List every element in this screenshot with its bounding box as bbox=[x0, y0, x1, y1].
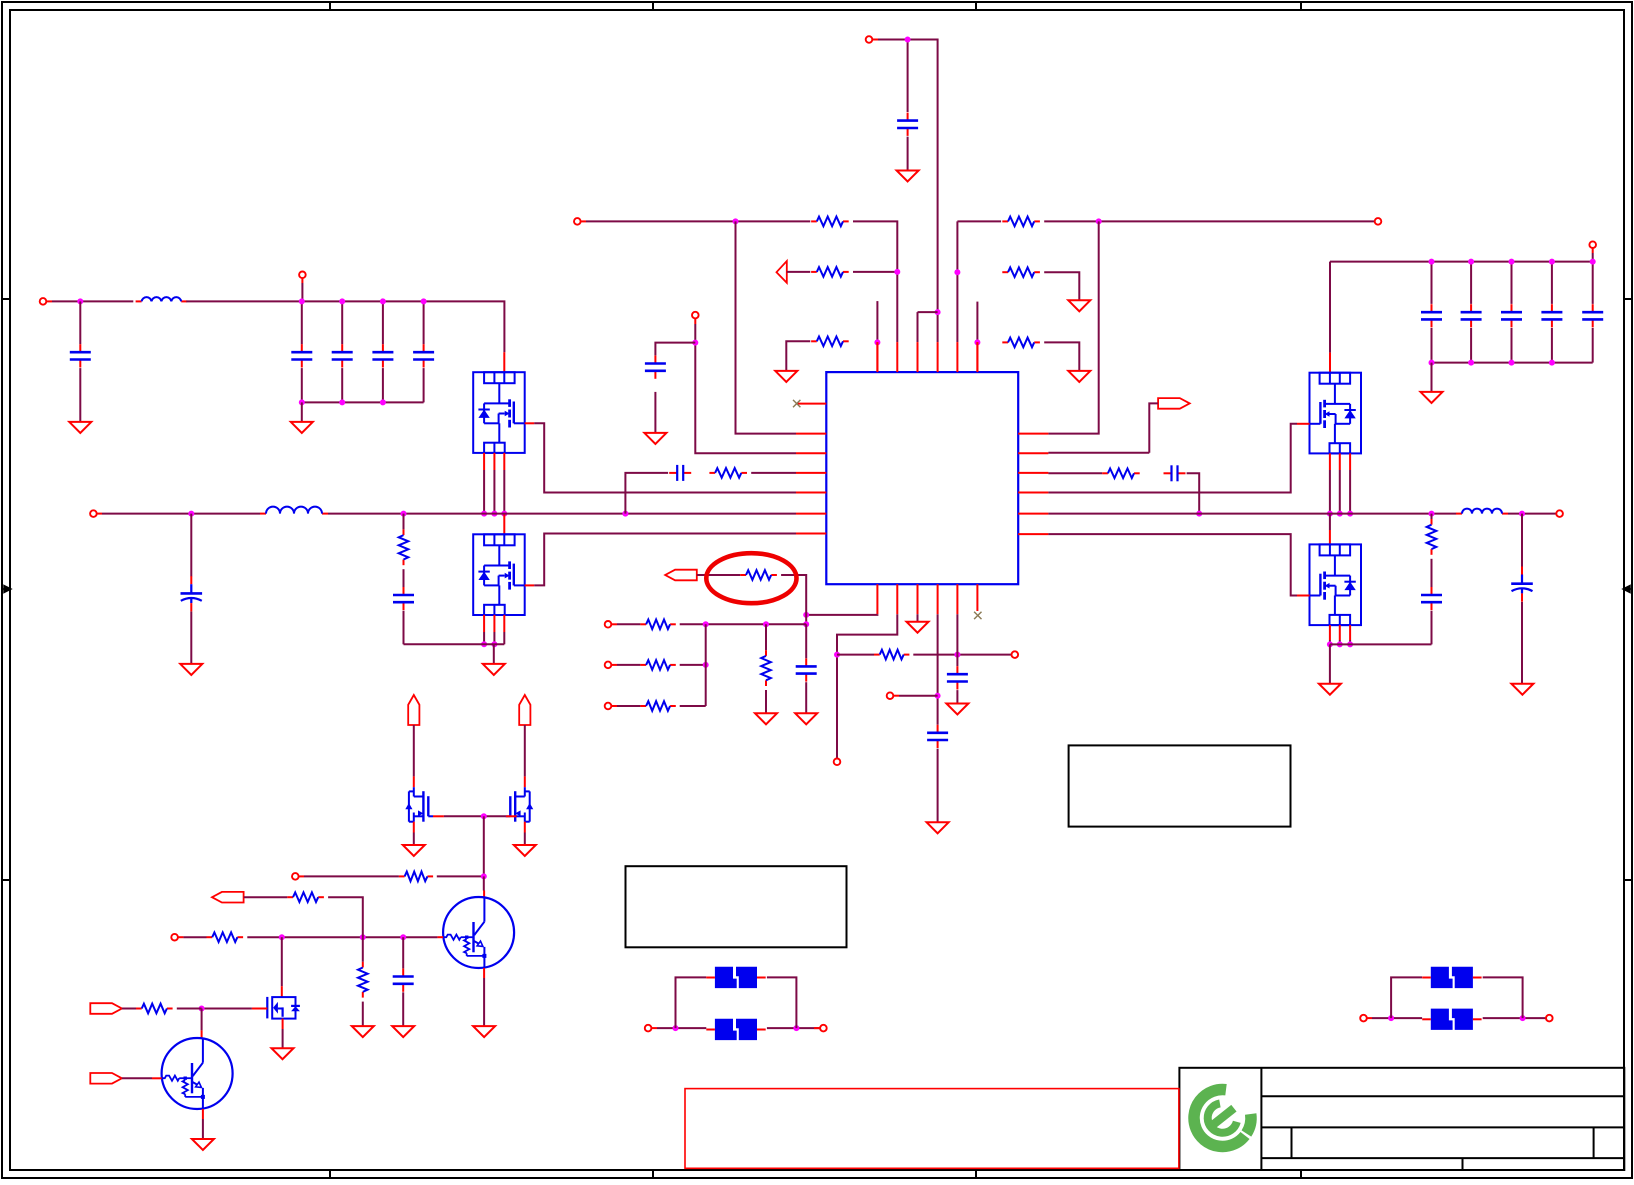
ground bbox=[775, 371, 797, 382]
ground bbox=[514, 845, 536, 856]
wire to R4 bbox=[957, 220, 1001, 222]
resistor R12 bbox=[640, 660, 675, 670]
capacitor C12 bbox=[796, 658, 817, 681]
resistor R10 bbox=[740, 570, 777, 580]
ground bbox=[483, 664, 505, 675]
no-connect x bbox=[793, 400, 800, 407]
U1 top pins bbox=[877, 342, 977, 372]
wire P17 down bbox=[1592, 253, 1594, 262]
wire R16 to C20 bbox=[1431, 559, 1433, 587]
inductor L3 bbox=[1456, 509, 1508, 514]
resistor R1 bbox=[811, 217, 849, 227]
wire cap column lower bbox=[1511, 328, 1513, 363]
junction bbox=[1327, 511, 1333, 517]
ground bbox=[192, 1139, 214, 1150]
wire to C12 bbox=[805, 624, 807, 658]
wire cap column bbox=[423, 301, 425, 344]
ground bbox=[352, 1026, 374, 1037]
Q1 source pins bbox=[484, 453, 504, 470]
wire C12 to ground bbox=[805, 682, 807, 713]
wire P25 to Q9 base bbox=[122, 1077, 152, 1079]
wire pin to port P14 bbox=[837, 614, 897, 758]
wire node to Q7 collector bbox=[483, 876, 485, 890]
wire R21 to node bbox=[177, 1008, 202, 1010]
wire vertical bus bbox=[705, 624, 707, 706]
capacitor C20 bbox=[1421, 587, 1442, 610]
resistor R3 bbox=[811, 337, 849, 347]
wire Q4 source to PGND bbox=[1339, 640, 1341, 644]
wire IC to P9 corner bbox=[1048, 452, 1149, 454]
U1 right pins bbox=[1018, 434, 1048, 534]
junction bbox=[703, 621, 709, 627]
wire C1 to ground bbox=[907, 137, 909, 171]
junction bbox=[299, 298, 305, 304]
wire to C9 bbox=[655, 343, 695, 356]
wire PGND bus right bbox=[1330, 643, 1432, 645]
port arrow P9 bbox=[1158, 398, 1190, 409]
ground bbox=[907, 622, 929, 633]
port arrow P3 bbox=[777, 261, 787, 283]
port P11 bbox=[605, 621, 612, 628]
port P22 bbox=[171, 934, 178, 941]
wire Q3 source to SW bbox=[1329, 470, 1331, 514]
junction bbox=[834, 652, 840, 658]
wire C21 to ground bbox=[1521, 602, 1523, 683]
resistor R9 bbox=[1102, 469, 1140, 479]
wire down to pin3 bbox=[917, 312, 919, 342]
wire to Q3 drain bbox=[1329, 262, 1331, 353]
wire C22 to ground bbox=[402, 992, 404, 1025]
junction bbox=[803, 612, 809, 618]
wire to R16 bbox=[1431, 514, 1433, 519]
capacitor C9 bbox=[645, 356, 666, 379]
junction bbox=[935, 693, 941, 699]
port P12 bbox=[605, 662, 612, 669]
fuse F3 bbox=[1422, 1009, 1481, 1030]
no-connect x bbox=[974, 612, 981, 619]
capacitor C4 bbox=[332, 344, 353, 367]
wire cap column bbox=[382, 301, 384, 344]
wire F2 down bbox=[767, 977, 797, 1028]
wire to ground bbox=[1431, 363, 1433, 392]
wire cap column bbox=[1592, 262, 1594, 304]
wire cap column bbox=[1431, 262, 1433, 304]
wire Q5 to ground bbox=[413, 833, 415, 845]
wire cap bank top bus bbox=[1330, 261, 1593, 263]
wire F1 to P27 bbox=[767, 1027, 820, 1029]
highlight ellipse bbox=[706, 553, 796, 603]
junction bbox=[692, 340, 698, 346]
junction bbox=[793, 1025, 799, 1031]
wire IC to Q3 gate bbox=[1048, 424, 1297, 493]
wire R11 bus bbox=[680, 623, 807, 625]
junction bbox=[1196, 511, 1202, 517]
junction bbox=[481, 641, 487, 647]
wire cap column bbox=[341, 301, 343, 344]
wire R10 down bbox=[781, 575, 806, 624]
capacitor C6 bbox=[413, 344, 434, 367]
wire node to Q9 bbox=[201, 1009, 203, 1031]
junction bbox=[1509, 360, 1515, 366]
port P27 bbox=[820, 1025, 827, 1032]
port P1 bbox=[866, 36, 873, 43]
port P28 bbox=[1360, 1015, 1367, 1022]
junction bbox=[491, 511, 497, 517]
wire to C2 bbox=[79, 301, 81, 344]
junction bbox=[400, 934, 406, 940]
wire branch to pin3 bbox=[918, 311, 938, 313]
ground bbox=[473, 1026, 495, 1037]
wire R20 to ground bbox=[362, 1002, 364, 1026]
port arrow P25 bbox=[90, 1073, 122, 1084]
wire Q2 gate to IC bbox=[534, 534, 796, 586]
ground bbox=[403, 845, 425, 856]
junction bbox=[481, 873, 487, 879]
wire to Q8 drain bbox=[281, 937, 283, 986]
junction bbox=[894, 269, 900, 275]
junction bbox=[188, 511, 194, 517]
resistor R2 bbox=[811, 267, 849, 277]
junction bbox=[1429, 360, 1435, 366]
wire cap column lower bbox=[301, 368, 303, 402]
junction bbox=[481, 511, 487, 517]
capacitor C11 series bbox=[1164, 465, 1186, 481]
port arrow P20 bbox=[519, 695, 530, 725]
wire to C21 bbox=[1521, 514, 1523, 567]
junction bbox=[874, 339, 880, 345]
resistor R6 bbox=[1002, 338, 1040, 348]
resistor R21 bbox=[136, 1004, 173, 1014]
wire gate node down bbox=[483, 816, 485, 876]
wire PGND bus left bbox=[404, 643, 505, 645]
resistor R11 bbox=[640, 620, 675, 630]
junction bbox=[401, 511, 407, 517]
wire R1 to IC pin bbox=[853, 221, 897, 342]
wire to IC left pin bbox=[736, 221, 797, 433]
junction bbox=[1429, 259, 1435, 265]
wire Q1 source to SW bbox=[503, 470, 505, 514]
wire F3 to P29 bbox=[1483, 1017, 1546, 1019]
junction bbox=[1519, 511, 1525, 517]
ground bbox=[795, 713, 817, 724]
junction bbox=[491, 641, 497, 647]
wire to ground bbox=[301, 402, 303, 421]
wire P26 to F1 bbox=[657, 1027, 706, 1029]
port P6 bbox=[299, 272, 306, 279]
wire P23 to R19 bbox=[244, 896, 287, 898]
wire cap column lower bbox=[1592, 328, 1594, 363]
wire Q1 source to SW bbox=[483, 470, 485, 514]
wire R3 to ground bbox=[786, 341, 810, 370]
Q3 source pins bbox=[1330, 453, 1350, 470]
wire cap column lower bbox=[382, 368, 384, 402]
annotation box 2 bbox=[1069, 745, 1291, 826]
wire cap column bbox=[1551, 262, 1553, 304]
capacitor C3 bbox=[291, 344, 312, 367]
wire cap column lower bbox=[1551, 328, 1553, 363]
capacitor C18 bbox=[1541, 304, 1562, 327]
fuse F4 bbox=[1422, 967, 1481, 988]
inductor L2 bbox=[260, 507, 328, 514]
wire cap column lower bbox=[423, 368, 425, 402]
wire P28 to F3 bbox=[1372, 1017, 1422, 1019]
junction bbox=[77, 298, 83, 304]
ground bbox=[291, 422, 313, 433]
port arrow P23 bbox=[212, 892, 244, 903]
junction bbox=[380, 298, 386, 304]
ground bbox=[392, 1026, 414, 1037]
wire P24 to R21 bbox=[122, 1008, 136, 1010]
transistor Q9 digital bbox=[162, 1038, 233, 1109]
wire cap column bbox=[1470, 262, 1472, 304]
capacitor C17 bbox=[1501, 304, 1522, 327]
fuse F2 bbox=[706, 967, 765, 988]
junction bbox=[1347, 641, 1353, 647]
capacitor C7 polarized bbox=[181, 576, 203, 611]
ground bbox=[1421, 392, 1443, 403]
junction bbox=[481, 813, 487, 819]
junction bbox=[935, 309, 941, 315]
capacitor C2 bbox=[70, 344, 91, 367]
wire R13 to bus bbox=[680, 705, 706, 707]
junction bbox=[299, 399, 305, 405]
junction bbox=[421, 298, 427, 304]
capacitor C1 bbox=[897, 113, 918, 136]
ground bbox=[180, 664, 202, 675]
wire cap column lower bbox=[1470, 328, 1472, 363]
capacitor C19 bbox=[1582, 304, 1603, 327]
port P2 bbox=[574, 218, 581, 225]
wire C2 to ground bbox=[79, 368, 81, 421]
red annotation box bbox=[685, 1089, 1179, 1169]
wire IC to Q4 gate bbox=[1048, 534, 1297, 595]
capacitor C13 bbox=[927, 725, 948, 748]
port P21 bbox=[292, 873, 299, 880]
ground bbox=[1319, 684, 1341, 695]
wire R7 to C8 bbox=[403, 569, 405, 587]
resistor R7 bbox=[399, 529, 409, 565]
ground bbox=[1511, 684, 1533, 695]
port P29 bbox=[1546, 1015, 1553, 1022]
wire VIN top vertical bbox=[878, 40, 938, 343]
junction bbox=[1337, 641, 1343, 647]
port P26 bbox=[645, 1025, 652, 1032]
wire Q1 gate to IC bbox=[534, 423, 796, 492]
resistor R15 bbox=[874, 650, 909, 660]
wire to Q4 drain bbox=[1329, 514, 1331, 530]
wire P11 to R11 bbox=[617, 623, 640, 625]
wire R12 to bus bbox=[680, 664, 706, 666]
wire Q9 emitter to ground bbox=[202, 1119, 204, 1139]
junction bbox=[673, 1025, 679, 1031]
wire up to P9 bbox=[1149, 403, 1158, 452]
wire R6 to ground bbox=[1044, 342, 1079, 370]
port P13 bbox=[605, 703, 612, 710]
wire L3 to port P18 bbox=[1508, 513, 1556, 515]
ground bbox=[946, 704, 968, 715]
wire pin to node bbox=[806, 613, 877, 616]
U1 bottom pin 6 bbox=[976, 584, 978, 611]
capacitor C10 series bbox=[669, 465, 691, 481]
resistor R14 bbox=[761, 650, 771, 686]
wire to IC right pin bbox=[1048, 221, 1098, 433]
port arrow P24 bbox=[90, 1003, 122, 1014]
wire gate bus Q8 bbox=[202, 1008, 252, 1010]
ground bbox=[897, 171, 919, 182]
wire F4 down bbox=[1483, 977, 1523, 1018]
wire to C_top bbox=[907, 40, 909, 113]
junction bbox=[279, 934, 285, 940]
wire P5 to L1 bbox=[52, 300, 133, 302]
wire Q1 source to SW bbox=[493, 470, 495, 514]
wire up to F4 bbox=[1391, 977, 1422, 1018]
port P16 bbox=[887, 692, 894, 699]
annotation box 1 bbox=[626, 866, 847, 947]
wire cap bottom bus bbox=[302, 401, 424, 403]
port P8 bbox=[692, 312, 699, 319]
wire R14 to ground bbox=[765, 690, 767, 713]
wire to R15 bbox=[837, 654, 874, 656]
wire Q4 source to PGND bbox=[1349, 640, 1351, 644]
resistor R4 bbox=[1002, 217, 1040, 227]
wire pin4 down bbox=[937, 614, 939, 725]
port P17 bbox=[1589, 241, 1596, 248]
junction bbox=[1337, 511, 1343, 517]
wire R5 to ground bbox=[1044, 272, 1079, 300]
junction bbox=[1468, 259, 1474, 265]
wire pin3 to ground bbox=[917, 614, 919, 621]
junction bbox=[1429, 511, 1435, 517]
wire R19 to base bus bbox=[328, 897, 363, 937]
wire P12 to R12 bbox=[617, 664, 640, 666]
resistor R5 bbox=[1002, 267, 1040, 277]
mosfet Q2 bbox=[473, 534, 525, 615]
junction bbox=[703, 662, 709, 668]
wire to C7 bbox=[190, 514, 192, 577]
IC U1 bbox=[826, 372, 1018, 584]
junction bbox=[1468, 360, 1474, 366]
wire R17 to node bbox=[437, 875, 484, 877]
mosfet Q1 bbox=[473, 372, 525, 453]
junction bbox=[1347, 511, 1353, 517]
inductor L1 bbox=[136, 297, 188, 301]
border centre arrows bbox=[2, 586, 1632, 593]
wire Q8 to ground bbox=[282, 1029, 284, 1048]
junction bbox=[1509, 259, 1515, 265]
ground bbox=[927, 822, 949, 833]
wire P16 to node bbox=[899, 695, 938, 697]
mosfet Q8 bbox=[267, 997, 300, 1019]
resistor R16 bbox=[1427, 519, 1437, 555]
wire C10 to SW bbox=[625, 473, 668, 514]
port P15 bbox=[1012, 651, 1019, 658]
wire P7 to L2 bbox=[102, 513, 260, 515]
resistor R18 bbox=[207, 932, 244, 942]
port P7 bbox=[90, 510, 97, 517]
capacitor C15 bbox=[1421, 304, 1442, 327]
U1 bottom pins bbox=[877, 584, 957, 614]
wire to ground bbox=[493, 644, 495, 663]
wire IC pin to R9 bbox=[1048, 472, 1102, 474]
junction bbox=[380, 399, 386, 405]
junction bbox=[622, 511, 628, 517]
wire Q2 source to PGND bus bbox=[503, 632, 505, 644]
junction bbox=[1549, 360, 1555, 366]
resistor R8 bbox=[709, 468, 747, 478]
wire Q4 source to PGND bbox=[1329, 640, 1331, 644]
wire P20 to Q6 bbox=[524, 725, 526, 776]
resistor R19 bbox=[287, 892, 324, 902]
junction bbox=[954, 652, 960, 658]
junction bbox=[803, 621, 809, 627]
junction bbox=[1388, 1015, 1394, 1021]
wire R4 to port P4 bbox=[1044, 220, 1375, 222]
capacitor C5 bbox=[372, 344, 393, 367]
wire SW bus right bbox=[1048, 513, 1456, 515]
ground bbox=[1068, 371, 1090, 382]
wire stub up bbox=[876, 301, 878, 342]
junction bbox=[501, 511, 507, 517]
wire cap bank bottom bus bbox=[1432, 362, 1593, 364]
wire gate bus bbox=[444, 815, 506, 817]
wire cap column lower bbox=[1431, 328, 1433, 363]
capacitor C14 bbox=[947, 666, 968, 689]
junction bbox=[974, 339, 980, 345]
wire P19 to Q5 bbox=[413, 725, 415, 776]
junction bbox=[360, 934, 366, 940]
wire P2 to R1 bbox=[586, 220, 810, 222]
wire to R7 bbox=[403, 514, 405, 530]
port P18 bbox=[1556, 510, 1563, 517]
junction bbox=[905, 37, 911, 43]
mosfet Q6 bbox=[506, 787, 534, 822]
wire IC pin to R8 bbox=[751, 472, 796, 474]
capacitor C21 polarized bbox=[1511, 566, 1533, 601]
wire Q7 emitter to ground bbox=[483, 978, 485, 1026]
wire base bus bbox=[247, 936, 437, 938]
junction bbox=[199, 1006, 205, 1012]
wire P22 to R18 bbox=[183, 936, 206, 938]
wire Q2 source to PGND bus bbox=[483, 632, 485, 644]
Q4 source pins bbox=[1330, 625, 1350, 640]
junction bbox=[1520, 1015, 1526, 1021]
resistor R13 bbox=[640, 701, 675, 711]
wire cap column bbox=[1511, 262, 1513, 304]
wire Q3 source to SW bbox=[1349, 470, 1351, 514]
junction bbox=[1096, 218, 1102, 224]
ground bbox=[69, 422, 91, 433]
wire to C22 bbox=[402, 937, 404, 968]
wire C11 to SW bbox=[1187, 473, 1200, 513]
ground bbox=[272, 1048, 294, 1059]
port P4 bbox=[1375, 218, 1382, 225]
wire to R20 bbox=[362, 937, 364, 962]
junction bbox=[954, 269, 960, 275]
port P14 bbox=[834, 759, 841, 766]
wire Q2 source to PGND bus bbox=[493, 632, 495, 644]
junction bbox=[1590, 259, 1596, 265]
wire L1 to Q1 drain bbox=[186, 301, 504, 352]
wire stub up bbox=[976, 302, 978, 343]
resistor R20 bbox=[358, 962, 368, 998]
wire P3 to R2 bbox=[787, 271, 811, 273]
mosfet Q3 bbox=[1310, 373, 1362, 454]
wire Q3 source to SW bbox=[1339, 470, 1341, 514]
wire C8 to PGND bbox=[403, 611, 405, 645]
junction bbox=[339, 399, 345, 405]
wire Q6 to ground bbox=[524, 833, 526, 845]
ground bbox=[755, 713, 777, 724]
